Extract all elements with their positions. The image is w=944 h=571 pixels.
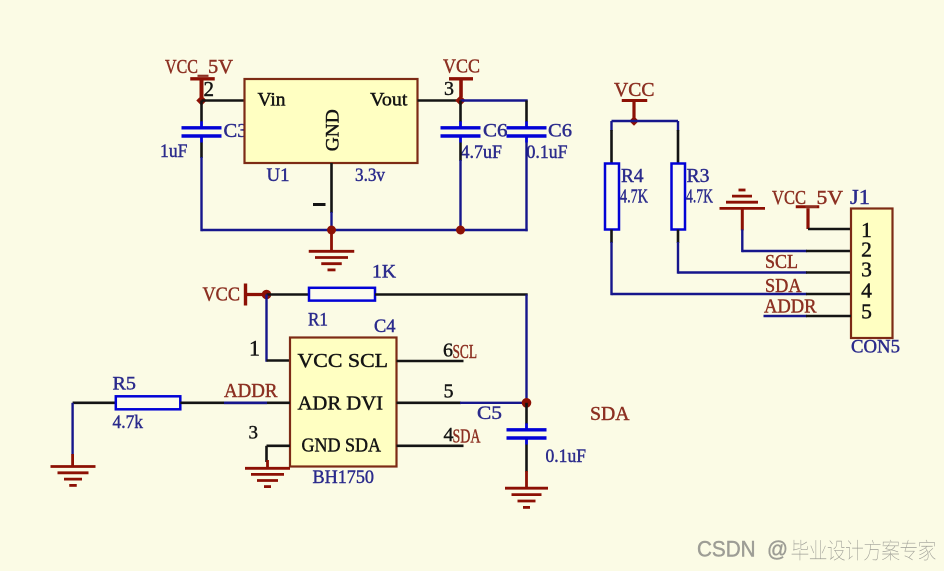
wire SDA row to J1 pin 4 — [612, 293, 808, 295]
svg-text:VCC: VCC — [165, 56, 198, 78]
svg-text:5V: 5V — [817, 187, 844, 209]
wire ADDR stub to J1 pin 5 — [764, 315, 808, 317]
node: DVI/C5 junction — [522, 398, 532, 408]
sensor BH1750 body — [290, 338, 397, 467]
wire BH1750 SCL pin stub — [397, 360, 464, 363]
pin 1 marker (minus) — [313, 203, 326, 206]
capacitor C6 4.7uF — [441, 121, 481, 142]
svg-text:R5: R5 — [113, 374, 137, 395]
svg-text:ADR DVI: ADR DVI — [298, 393, 384, 415]
power symbol VCC_5V (right) — [796, 207, 820, 229]
svg-text:R4: R4 — [621, 165, 644, 187]
svg-text:ADDR: ADDR — [764, 296, 817, 318]
capacitor C3 — [182, 121, 222, 142]
svg-text:C4: C4 — [374, 316, 396, 337]
svg-text:1K: 1K — [372, 262, 396, 283]
earth ground symbol (inverted) — [720, 190, 766, 230]
svg-text:5: 5 — [861, 300, 872, 324]
wire junction down to C5 — [525, 403, 528, 424]
svg-text:BH1750: BH1750 — [313, 467, 375, 488]
wire down to R4 — [610, 121, 612, 131]
power symbol VCC (right) — [622, 101, 648, 119]
svg-text:ADDR: ADDR — [224, 380, 278, 402]
resistor R4 — [605, 164, 619, 230]
wire U1 Vout to VCC node — [418, 99, 461, 102]
svg-text:3: 3 — [444, 78, 454, 100]
wire BH1750 SDA pin stub — [397, 444, 464, 447]
svg-text:4.7uF: 4.7uF — [461, 142, 503, 163]
junction at C6 and rail — [456, 226, 465, 235]
svg-text:GND SDA: GND SDA — [302, 435, 382, 457]
wire C5 to ground — [525, 445, 528, 473]
svg-text:J1: J1 — [850, 185, 870, 209]
wire R4 to SDA row — [610, 230, 613, 244]
wire U1 GND pin down — [330, 163, 333, 213]
wire node down to C3 — [200, 101, 203, 122]
svg-text:R1: R1 — [308, 310, 328, 331]
svg-text:3: 3 — [249, 423, 259, 444]
capacitor C5 — [507, 423, 547, 444]
wire earth to J1 pin 2 — [741, 229, 743, 252]
svg-text:2: 2 — [204, 77, 215, 101]
wire R5 left down to ground — [71, 403, 73, 455]
wire down to R3 — [677, 121, 679, 131]
svg-text:SDA: SDA — [453, 426, 481, 448]
junction at GND pin and rail — [327, 226, 336, 235]
wire C3 to bottom rail — [200, 143, 203, 159]
wire segment under ADDR label — [224, 401, 267, 404]
node: VCC_5V junction — [196, 95, 206, 105]
power symbol VCC (top) — [449, 79, 473, 97]
regulator U1 body — [245, 79, 418, 163]
node: VCC bottom junction — [262, 290, 272, 300]
ground symbol below U1 — [309, 230, 355, 270]
svg-text:4.7K: 4.7K — [620, 186, 648, 208]
svg-text:R3: R3 — [687, 165, 710, 187]
svg-text:GND: GND — [323, 109, 344, 151]
wire BH1750 GND pin — [267, 444, 291, 447]
svg-text:VCC SCL: VCC SCL — [298, 350, 389, 372]
wire SCL row to J1 pin 3 — [678, 271, 807, 273]
svg-text:3.3v: 3.3v — [355, 165, 385, 186]
node: VCC right junction — [629, 116, 639, 126]
svg-text:VCC: VCC — [614, 79, 655, 101]
wire VCC node horizontal — [612, 120, 679, 122]
svg-text:SCL: SCL — [765, 251, 798, 273]
wire VCC node down to C6 (4.7uF) — [459, 101, 462, 123]
watermark chinese text — [792, 540, 936, 561]
power symbol VCC (bottom, rotated) — [246, 284, 267, 306]
svg-text:1: 1 — [249, 336, 260, 361]
wire R5 net: left segment — [73, 401, 116, 404]
ground symbol left of R5 — [51, 466, 96, 485]
wire R5 to BH1750 ADR pin — [180, 401, 290, 404]
power symbol VCC_5V (left) — [190, 79, 215, 97]
svg-text:Vout: Vout — [370, 90, 408, 111]
resistor R5 — [116, 396, 181, 409]
svg-text:CSDN @: CSDN @ — [697, 537, 788, 562]
svg-text:C6: C6 — [483, 121, 508, 142]
svg-text:4.7k: 4.7k — [113, 412, 144, 433]
ground symbol below BH1750 GND pin — [245, 460, 290, 487]
wire C6 0.1uF to rail — [525, 143, 527, 232]
node: VCC junction — [455, 95, 465, 105]
svg-text:0.1uF: 0.1uF — [546, 446, 587, 467]
svg-text:C6: C6 — [548, 121, 572, 142]
svg-text:VCC: VCC — [203, 284, 241, 306]
ground symbol below C5 — [505, 471, 548, 507]
svg-text:U1: U1 — [267, 165, 290, 186]
wire corner down to DVI junction — [525, 295, 527, 403]
connector J1 body — [851, 209, 893, 339]
svg-text:SDA: SDA — [590, 403, 630, 425]
wire VCC node down to BH1750 pin 1 — [265, 295, 267, 362]
wire VCC node to R1 — [267, 293, 310, 296]
wire VCC node to right corner — [461, 99, 528, 101]
svg-text:CON5: CON5 — [851, 337, 900, 358]
svg-text:6: 6 — [443, 340, 453, 362]
capacitor C6 0.1uF — [507, 121, 547, 142]
svg-text:1uF: 1uF — [160, 141, 188, 162]
wire R3 to SCL row — [677, 230, 680, 244]
svg-text:0.1uF: 0.1uF — [527, 142, 568, 163]
ground rail wire — [202, 229, 528, 231]
wire VCC_5V node to U1 Vin — [202, 99, 245, 102]
resistor R1 — [309, 288, 375, 301]
wire C6 4.7uF to rail — [459, 143, 462, 162]
svg-text:C5: C5 — [477, 403, 502, 424]
svg-text:SDA: SDA — [765, 275, 802, 297]
svg-text:5V: 5V — [208, 56, 234, 78]
wire VCC_5V to J1 pin 1 — [808, 228, 851, 231]
wire R1 to right corner — [375, 293, 528, 296]
svg-text:5: 5 — [444, 381, 454, 403]
svg-text:Vin: Vin — [258, 90, 287, 111]
svg-text:4.7K: 4.7K — [686, 186, 713, 208]
resistor R3 — [672, 164, 686, 230]
wire corner down to C6 (0.1uF) — [525, 101, 528, 123]
svg-text:SCL: SCL — [453, 341, 478, 363]
wire BH1750 DVI pin to junction — [397, 401, 462, 404]
svg-text:VCC: VCC — [443, 56, 480, 78]
svg-text:VCC: VCC — [772, 187, 806, 209]
